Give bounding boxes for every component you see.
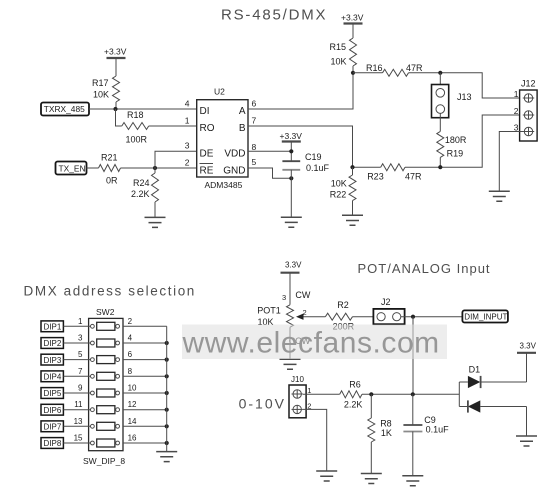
wire DIP3 to SW2 pin 5 — [63, 359, 90, 361]
svg-text:RO: RO — [200, 123, 215, 134]
resistor R23 47R — [353, 164, 423, 182]
svg-text:U2: U2 — [214, 87, 225, 97]
power 3.3V (POT1) — [281, 261, 303, 305]
resistor R15 10K — [330, 38, 357, 73]
svg-text:R23: R23 — [367, 172, 384, 182]
ground (R24) — [145, 217, 166, 227]
resistor R19 150R — [437, 124, 467, 167]
resistor R21 0R — [87, 153, 121, 186]
node top termination junction — [438, 71, 442, 75]
diode D1 lower (to GND) — [459, 382, 526, 436]
port TX_EN — [56, 162, 87, 175]
svg-text:A: A — [239, 106, 246, 117]
svg-text:7: 7 — [252, 116, 257, 126]
svg-text:VDD: VDD — [224, 149, 245, 160]
node VDD — [289, 149, 293, 153]
svg-text:6: 6 — [252, 99, 257, 109]
svg-text:10: 10 — [128, 384, 137, 393]
svg-text:0.1uF: 0.1uF — [426, 425, 450, 435]
port DIP3 — [41, 354, 63, 365]
svg-text:2: 2 — [185, 158, 190, 168]
ground (R22) — [342, 215, 363, 225]
wire A to R15/R16 node — [248, 73, 353, 109]
POT1 wiper arrow — [296, 314, 325, 320]
svg-text:DIP5: DIP5 — [44, 389, 62, 398]
svg-text:2: 2 — [303, 308, 307, 317]
svg-text:+3.3V: +3.3V — [280, 131, 303, 141]
wire DIP4 to SW2 pin 7 — [63, 375, 90, 377]
svg-text:SW_DIP_8: SW_DIP_8 — [83, 456, 125, 466]
node bottom termination junction — [438, 165, 442, 169]
svg-text:R6: R6 — [349, 380, 361, 390]
op-amp U2 ADM3485 IC body — [197, 87, 248, 191]
resistor R18 100R — [122, 110, 149, 145]
svg-text:D1: D1 — [469, 365, 481, 375]
svg-text:TXRX_485: TXRX_485 — [44, 104, 85, 114]
svg-text:10K: 10K — [93, 90, 109, 100]
svg-text:100R: 100R — [126, 135, 148, 145]
svg-text:7: 7 — [78, 367, 83, 376]
svg-text:4: 4 — [128, 334, 133, 343]
switch element SW2-3 — [91, 356, 120, 364]
svg-text:DIP4: DIP4 — [44, 373, 62, 382]
connector J13 — [432, 73, 472, 124]
ground (J10 pin2) — [316, 471, 337, 481]
svg-text:R19: R19 — [447, 149, 464, 159]
svg-text:4: 4 — [185, 99, 190, 109]
resistor R24 2.2K — [131, 168, 159, 217]
port DIP2 — [41, 338, 63, 349]
svg-text:12: 12 — [128, 400, 137, 409]
svg-text:14: 14 — [128, 417, 137, 426]
svg-text:2: 2 — [514, 106, 519, 116]
capacitor C9 0.1uF — [403, 394, 449, 476]
svg-text:DIP2: DIP2 — [44, 339, 62, 348]
wire DIP2 to SW2 pin 3 — [63, 342, 90, 344]
wire J10 pin2 to ground — [303, 409, 327, 471]
svg-text:SW2: SW2 — [96, 307, 115, 317]
svg-text:J13: J13 — [457, 92, 472, 102]
capacitor C19 0.1uF — [282, 152, 329, 173]
node R8 junction — [369, 392, 373, 396]
switch element SW2-2 — [91, 339, 120, 347]
svg-text:0R: 0R — [106, 176, 118, 186]
node bus row 2 — [165, 341, 169, 345]
svg-text:1: 1 — [307, 386, 311, 395]
svg-text:R22: R22 — [330, 190, 347, 200]
wire SW2 pin 4 to bus — [123, 342, 167, 344]
svg-text:10K: 10K — [331, 56, 347, 66]
wire junction down to R18 — [116, 109, 122, 126]
resistor R8 1K — [368, 394, 392, 473]
connector J12 — [520, 79, 538, 142]
wire TXRX_485 to DI — [89, 108, 197, 110]
port DIP8 — [41, 438, 63, 449]
wire C19 to ground — [290, 170, 292, 217]
svg-text:GND: GND — [223, 166, 245, 177]
ground (POT1) — [280, 359, 301, 369]
svg-text:R8: R8 — [380, 419, 392, 429]
node bus row 4 — [165, 374, 169, 378]
port DIM_INPUT — [462, 310, 508, 322]
svg-text:2.2K: 2.2K — [131, 189, 150, 199]
power +3.3V (R15 pull-up) — [341, 13, 364, 39]
wire DIM node down to analog rail — [412, 317, 414, 395]
svg-text:9: 9 — [78, 384, 83, 393]
svg-text:+3.3V: +3.3V — [341, 13, 364, 23]
wire SW2 pin 10 to bus — [123, 392, 167, 394]
svg-text:5: 5 — [252, 157, 257, 167]
wire SW2 pin 6 to bus — [123, 359, 167, 361]
svg-text:R16: R16 — [366, 63, 383, 73]
node C19 bottom — [289, 176, 293, 180]
svg-text:0-10V: 0-10V — [239, 396, 286, 412]
svg-text:8: 8 — [128, 367, 133, 376]
svg-text:DIP8: DIP8 — [44, 439, 62, 448]
wire J12 pin3 to ground — [499, 132, 524, 192]
svg-text:3.3V: 3.3V — [285, 261, 302, 270]
ground (DIP bus) — [156, 452, 177, 462]
connector J2 — [373, 297, 404, 324]
svg-text:+3.3V: +3.3V — [104, 47, 127, 57]
svg-text:1: 1 — [514, 89, 519, 99]
resistor R22 10K — [330, 167, 356, 215]
svg-text:16: 16 — [128, 434, 137, 443]
svg-text:J12: J12 — [521, 79, 536, 89]
node bus row 8 — [165, 441, 169, 445]
svg-text:B: B — [239, 123, 246, 134]
svg-text:2: 2 — [128, 317, 133, 326]
resistor R6 2.2K — [340, 380, 363, 410]
svg-text:11: 11 — [74, 400, 83, 409]
svg-text:DMX address selection: DMX address selection — [24, 284, 196, 299]
node C9 junction — [411, 392, 415, 396]
wire SW2 pin 12 to bus — [123, 409, 167, 411]
svg-text:TX_EN: TX_EN — [59, 163, 86, 173]
wire GND pin5 to C19 bottom — [248, 168, 291, 178]
wire R18 to RO — [149, 125, 197, 127]
switch element SW2-4 — [91, 372, 120, 380]
ground (C19) — [281, 217, 302, 227]
wire R16 to J12 pin1 — [409, 73, 525, 98]
port DIP1 — [41, 321, 63, 332]
resistor R17 10K — [92, 76, 120, 109]
ground (C9) — [402, 476, 423, 486]
port TXRX_485 — [41, 103, 89, 116]
wire VDD pin to node — [248, 150, 291, 152]
svg-text:47R: 47R — [406, 63, 423, 73]
node bus row 7 — [165, 424, 169, 428]
svg-text:DIP3: DIP3 — [44, 356, 62, 365]
node bus row 3 — [165, 358, 169, 362]
svg-text:2.2K: 2.2K — [344, 399, 363, 409]
svg-text:1: 1 — [185, 116, 190, 126]
wire R23 to J12 pin2 — [405, 115, 524, 167]
port DIP6 — [41, 404, 63, 415]
node bus row 6 — [165, 408, 169, 412]
node bus row 5 — [165, 391, 169, 395]
wire junction up to DE — [155, 151, 197, 168]
svg-text:0.1uF: 0.1uF — [306, 163, 330, 173]
svg-text:www.elecfans.com: www.elecfans.com — [182, 326, 440, 359]
svg-text:1K: 1K — [381, 428, 392, 438]
wire DIP1 to SW2 pin 1 — [63, 325, 90, 327]
power +3.3V (R17 pull-up) — [104, 47, 127, 77]
switch element SW2-8 — [91, 439, 120, 447]
wire R6 to diode rail — [362, 393, 459, 395]
wire B down to R22/R23 node — [248, 126, 353, 167]
svg-text:10K: 10K — [331, 178, 347, 188]
port DIP5 — [41, 388, 63, 399]
switch element SW2-6 — [91, 406, 120, 414]
svg-text:R24: R24 — [133, 178, 150, 188]
svg-text:DE: DE — [200, 149, 214, 160]
svg-text:13: 13 — [74, 417, 83, 426]
svg-text:1: 1 — [78, 317, 83, 326]
svg-text:8: 8 — [252, 142, 257, 152]
svg-text:R21: R21 — [101, 153, 118, 163]
svg-text:J2: J2 — [381, 297, 391, 307]
wire SW2 pin 14 to bus — [123, 425, 167, 427]
watermark band — [182, 325, 447, 360]
wire SW2 pin 2 to bus — [123, 325, 167, 327]
ground (clamp) — [516, 436, 537, 446]
node A/R15/R16 — [351, 71, 355, 75]
wire POT1 to ground — [289, 327, 291, 359]
svg-text:3: 3 — [185, 141, 190, 151]
svg-text:ADM3485: ADM3485 — [205, 180, 243, 190]
svg-text:47R: 47R — [405, 172, 422, 182]
potentiometer POT1 10K — [257, 305, 293, 327]
switch element SW2-5 — [91, 389, 120, 397]
node DE/RE junction — [153, 166, 157, 170]
svg-text:DIP7: DIP7 — [44, 423, 62, 432]
svg-text:RS-485/DMX: RS-485/DMX — [221, 7, 327, 24]
wire DIP6 to SW2 pin 11 — [63, 409, 90, 411]
switch element SW2-7 — [91, 422, 120, 430]
diode D1 upper (to 3.3V) — [459, 376, 526, 388]
svg-text:R15: R15 — [330, 42, 347, 52]
wire DIP7 to SW2 pin 13 — [63, 425, 90, 427]
ground (J12 pin3) — [489, 191, 510, 201]
svg-text:6: 6 — [128, 350, 133, 359]
svg-text:R2: R2 — [337, 300, 349, 310]
wire J2 to DIM_INPUT — [401, 316, 463, 318]
power 3.3V (clamp) — [517, 342, 537, 383]
power +3.3V (VDD) — [280, 131, 303, 161]
svg-text:DIP1: DIP1 — [44, 323, 62, 332]
switch element SW2-1 — [91, 322, 120, 330]
wire J10 pin1 to R6 — [303, 393, 340, 395]
svg-text:RE: RE — [200, 166, 214, 177]
port DIP7 — [41, 421, 63, 432]
svg-text:5: 5 — [78, 350, 83, 359]
svg-text:3.3V: 3.3V — [520, 342, 537, 351]
node B junction — [350, 165, 354, 169]
svg-text:DIP6: DIP6 — [44, 406, 62, 415]
svg-text:C9: C9 — [424, 415, 436, 425]
wire R2 to J2 — [353, 316, 378, 318]
resistor R16 47R — [353, 63, 423, 76]
svg-text:3: 3 — [282, 293, 286, 302]
wire SW2 pin 16 to bus — [123, 442, 167, 444]
svg-text:POT1: POT1 — [257, 306, 281, 316]
port DIP4 — [41, 371, 63, 382]
svg-text:3: 3 — [78, 334, 83, 343]
connector J10 — [289, 375, 306, 418]
node TXRX junction — [113, 107, 117, 111]
wire SW2 pin 8 to bus — [123, 375, 167, 377]
svg-text:R17: R17 — [92, 78, 109, 88]
wire DIP common bus — [166, 326, 168, 451]
svg-text:DI: DI — [200, 106, 210, 117]
svg-text:J10: J10 — [291, 375, 304, 384]
svg-text:15: 15 — [74, 434, 83, 443]
ground (R8) — [361, 474, 382, 484]
node DIM junction — [411, 315, 415, 319]
svg-text:DIM_INPUT: DIM_INPUT — [464, 313, 507, 322]
svg-text:180R: 180R — [445, 135, 467, 145]
wire DIP8 to SW2 pin 15 — [63, 442, 90, 444]
wire R21 to RE — [121, 167, 198, 169]
svg-text:C19: C19 — [305, 152, 322, 162]
switch SW2 SW_DIP_8 body — [83, 307, 125, 466]
resistor R2 200R — [325, 300, 354, 332]
svg-text:POT/ANALOG Input: POT/ANALOG Input — [358, 261, 491, 276]
wire DIP5 to SW2 pin 9 — [63, 392, 90, 394]
svg-text:CW: CW — [295, 290, 310, 300]
svg-text:R18: R18 — [127, 110, 144, 120]
